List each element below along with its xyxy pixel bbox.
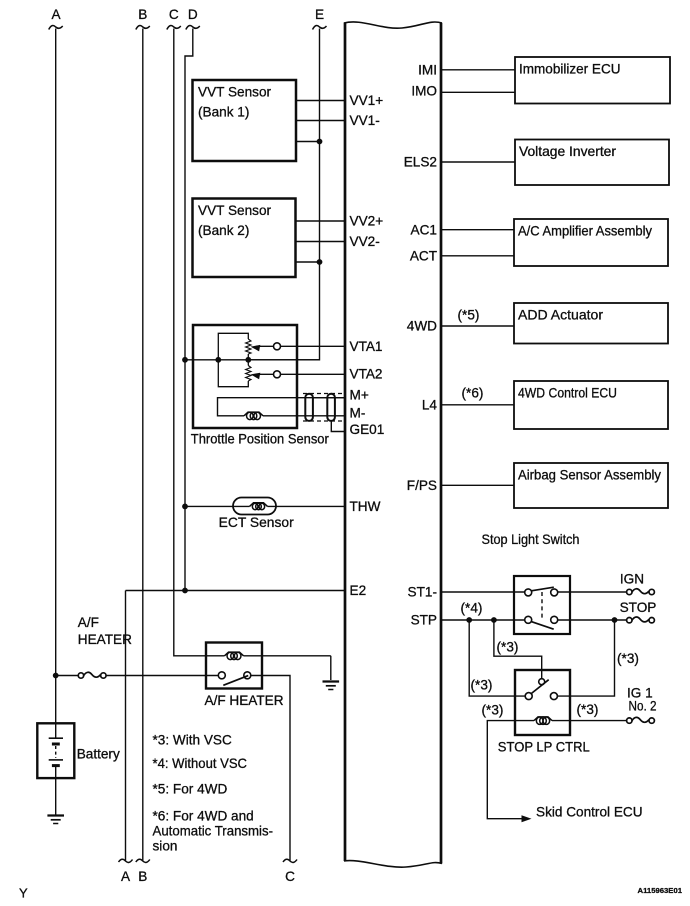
fuse STOP (627, 617, 655, 623)
caption STOP LP CTRL (498, 740, 590, 755)
caption Stop Light Switch (482, 532, 580, 547)
VTA2 wiper arrow and contact (251, 371, 346, 379)
stop light switch dashed link (541, 592, 543, 619)
wire THW (185, 505, 345, 507)
svg-text:ACT: ACT (410, 248, 437, 263)
svg-text:(*6): (*6) (462, 386, 484, 401)
svg-text:(*4): (*4) (461, 601, 483, 616)
wire C-bottom (relay output to terminal C) (251, 676, 290, 861)
label A/F HEATER (bus A) (78, 615, 132, 647)
TPS throttle motor loop (M+ / M- wiring) (218, 398, 346, 416)
svg-text:IMO: IMO (411, 84, 437, 99)
svg-text:(*3): (*3) (482, 703, 504, 718)
svg-text:(Bank 1): (Bank 1) (198, 105, 249, 120)
wire switch to IGN fuse (558, 591, 627, 593)
node D (top terminal label) (186, 7, 200, 30)
svg-text:M-: M- (350, 406, 366, 421)
fuse A/F heater (78, 672, 106, 678)
wire AC1 (441, 229, 514, 231)
svg-text:(*3): (*3) (471, 678, 493, 693)
svg-text:*4: Without VSC: *4: Without VSC (153, 756, 248, 771)
svg-text:VV1+: VV1+ (350, 93, 384, 108)
footnote *4 (153, 756, 248, 771)
wire second branch to stop lp ctrl pivot (494, 620, 542, 679)
ECT Sensor capsule (233, 498, 276, 515)
STOP LP CTRL relay box (515, 670, 570, 735)
svg-text:IMI: IMI (418, 62, 437, 77)
wire VV1+ (296, 100, 345, 102)
pin label THW (350, 499, 381, 514)
svg-text:L4: L4 (422, 397, 438, 412)
node A (bottom terminal label) (119, 859, 133, 884)
wire heater feed (56, 675, 219, 677)
node C (top terminal label) (167, 7, 181, 30)
wire VV2- (295, 241, 345, 243)
connector capsule 2 (327, 394, 335, 421)
VVT Sensor (Bank 1) (193, 80, 297, 161)
svg-text:ELS2: ELS2 (404, 155, 437, 170)
svg-text:*5: For 4WD: *5: For 4WD (153, 782, 228, 797)
svg-text:D: D (188, 7, 198, 22)
svg-text:Throttle Position Sensor: Throttle Position Sensor (191, 432, 329, 447)
svg-text:B: B (138, 869, 147, 884)
label No. 2 (629, 698, 657, 713)
caption Throttle Position Sensor (191, 432, 329, 447)
svg-text:E2: E2 (350, 583, 367, 598)
pin label AC1 (411, 222, 437, 237)
junction VVT1/E (317, 139, 323, 145)
wire E (vertical, to TPS supply node) (248, 29, 319, 360)
label (*3) pivot branch (497, 640, 519, 655)
stop light switch contacts (ST1- row) (525, 587, 558, 596)
junction STOP-fuse branch (612, 617, 618, 623)
A/F HEATER relay box (206, 643, 262, 689)
svg-text:THW: THW (350, 499, 381, 514)
pin label M+ (350, 388, 369, 403)
label A115963E01 (figure code) (638, 886, 683, 895)
svg-text:B: B (138, 7, 147, 22)
pin label F/PS (407, 478, 437, 493)
box A/C Amplifier Assembly (514, 219, 668, 266)
wire F/PS (441, 484, 514, 486)
footnote *6 (153, 809, 274, 854)
wire A (vertical battery feed) (55, 29, 57, 724)
wire STP to switch (441, 619, 525, 621)
wire coil to skid control ECU (487, 721, 524, 819)
wire switch to STOP fuse (558, 619, 627, 621)
pin label VV2- (350, 234, 380, 249)
svg-text:ECT Sensor: ECT Sensor (219, 515, 294, 530)
junction A / heater feed (53, 673, 59, 679)
junction VVT2/E (317, 259, 323, 265)
pin label VTA2 (350, 366, 383, 381)
label IGN (620, 572, 644, 587)
wire L4 (441, 404, 514, 406)
svg-text:Y: Y (19, 886, 28, 901)
box Airbag Sensor Assembly (514, 463, 668, 508)
ground (A/F heater relay) (323, 682, 340, 690)
label (*3) coil left (482, 703, 504, 718)
wire IMO (441, 91, 515, 93)
svg-text:A/F: A/F (78, 615, 99, 630)
svg-text:VVT Sensor: VVT Sensor (198, 85, 272, 100)
pin label ELS2 (404, 155, 437, 170)
svg-text:HEATER: HEATER (78, 632, 132, 647)
fuse IGN (627, 589, 655, 595)
label (*3) left branch (471, 678, 493, 693)
TPS potentiometer body (218, 333, 251, 386)
wire C (vertical, to A/F heater relay coil) (174, 29, 225, 656)
svg-text:ADD Actuator: ADD Actuator (518, 308, 603, 323)
ground (battery) (47, 816, 64, 824)
svg-text:E: E (315, 7, 324, 22)
pin label GE01 (350, 422, 385, 437)
pin label IMO (411, 84, 437, 99)
label (*6) (462, 386, 484, 401)
wire VVT1 to bus E (296, 141, 320, 143)
wire B (vertical) (142, 29, 144, 861)
node C (bottom terminal label) (283, 859, 297, 884)
Throttle Position Sensor box (193, 325, 297, 428)
svg-text:IGN: IGN (620, 572, 644, 587)
pin label VV2+ (350, 214, 384, 229)
label Battery (77, 747, 120, 762)
svg-text:C: C (169, 7, 179, 22)
footnote *5 (153, 782, 228, 797)
stop lp ctrl pivot contact (539, 679, 545, 685)
svg-text:M+: M+ (350, 388, 369, 403)
A/F heater relay coil (225, 652, 331, 660)
junction D rail (182, 357, 188, 363)
caption A/F HEATER (relay) (205, 693, 284, 708)
wire sensor-ground rail (D to pot to E) (185, 359, 320, 361)
label (*3) right branch (617, 651, 639, 666)
svg-text:F/PS: F/PS (407, 478, 437, 493)
svg-text:VV2+: VV2+ (350, 214, 384, 229)
svg-text:C: C (285, 869, 295, 884)
junction STP second (491, 617, 497, 623)
battery cells (49, 723, 63, 778)
A/F heater relay contacts (218, 672, 251, 686)
svg-text:A: A (51, 7, 61, 22)
svg-text:(Bank 2): (Bank 2) (198, 223, 249, 238)
node B (top terminal label) (136, 7, 150, 30)
label Skid Control ECU (536, 805, 643, 820)
label (*5) (458, 308, 480, 323)
caption ECT Sensor (219, 515, 294, 530)
label STOP (620, 600, 657, 615)
svg-text:VTA1: VTA1 (350, 339, 383, 354)
box ADD Actuator (514, 303, 668, 344)
svg-text:(*3): (*3) (497, 640, 519, 655)
svg-text:sion: sion (153, 839, 178, 854)
pin label ST1- (408, 585, 437, 600)
wire VV2+ (295, 220, 345, 222)
label IG 1 (627, 686, 653, 701)
svg-text:GE01: GE01 (350, 422, 385, 437)
label (*4) (461, 601, 483, 616)
svg-text:AC1: AC1 (411, 222, 437, 237)
svg-text:4WD Control ECU: 4WD Control ECU (518, 386, 617, 401)
junction D/THW (182, 504, 188, 510)
pin label ACT (410, 248, 437, 263)
ECM (engine control module) outline (344, 22, 442, 867)
wire 4WD (441, 325, 514, 327)
svg-text:STP: STP (411, 613, 437, 628)
svg-text:VV1-: VV1- (350, 113, 380, 128)
wire VVT2 to bus E (295, 261, 320, 263)
pin label VV1- (350, 113, 380, 128)
pin label IMI (418, 62, 437, 77)
wire GE01 (shield drain) (331, 421, 345, 432)
wire ELS2 (441, 161, 515, 163)
svg-text:Skid Control ECU: Skid Control ECU (536, 805, 643, 820)
wire D (vertical sensor ground, jogs left) (185, 29, 193, 591)
wire IMI (441, 69, 515, 71)
Battery box (37, 723, 74, 778)
pin label M- (350, 406, 366, 421)
stop light switch contacts (STP row) (525, 616, 558, 629)
label Y (page marker) (19, 886, 28, 901)
svg-text:Immobilizer ECU: Immobilizer ECU (519, 62, 621, 77)
svg-text:VTA2: VTA2 (350, 366, 383, 381)
wire (*4) branch to stop lp ctrl left contact (469, 620, 525, 696)
svg-text:VV2-: VV2- (350, 234, 380, 249)
box Voltage Inverter (515, 140, 669, 186)
svg-text:Automatic Transmis-: Automatic Transmis- (153, 824, 274, 839)
svg-text:A/F HEATER: A/F HEATER (205, 693, 284, 708)
TPS motor coil (244, 412, 263, 419)
arrow to skid control ECU (522, 815, 532, 822)
stop lp ctrl relay coil (515, 717, 570, 725)
svg-text:*3: With VSC: *3: With VSC (153, 733, 233, 748)
node A (top terminal label) (49, 7, 63, 30)
pin label E2 (350, 583, 367, 598)
Stop Light Switch box (514, 576, 570, 634)
VTA1 wiper arrow and contact (251, 343, 346, 352)
stop lp ctrl right contact (550, 693, 557, 700)
svg-text:Airbag Sensor Assembly: Airbag Sensor Assembly (518, 468, 661, 483)
junction pot body (215, 357, 221, 363)
svg-text:No. 2: No. 2 (629, 698, 657, 713)
fuse IG1/No2 (627, 717, 655, 723)
box Immobilizer ECU (515, 57, 670, 104)
svg-text:Stop Light Switch: Stop Light Switch (482, 532, 580, 547)
svg-text:(*3): (*3) (577, 702, 599, 717)
junction pot tap (245, 357, 251, 363)
wire ACT (441, 255, 514, 257)
wire A-bottom (E2 ground drop to terminal A) (125, 591, 127, 861)
svg-text:A: A (121, 869, 131, 884)
svg-text:(*3): (*3) (617, 651, 639, 666)
wire coil to ground (330, 656, 332, 680)
svg-text:(*5): (*5) (458, 308, 480, 323)
wire VV1- (296, 120, 345, 122)
wire STOP-fuse branch to stop lp ctrl right contact (557, 620, 614, 696)
wire ST1- to switch (441, 591, 525, 593)
node B (bottom terminal label) (136, 859, 150, 884)
svg-text:4WD: 4WD (407, 319, 437, 334)
svg-text:Voltage Inverter: Voltage Inverter (519, 144, 616, 159)
pin label VV1+ (350, 93, 384, 108)
node E (top terminal label) (313, 7, 327, 30)
stop lp ctrl left contact (525, 693, 532, 700)
junction STP (*4) (466, 617, 472, 623)
svg-text:A115963E01: A115963E01 (638, 886, 683, 895)
box 4WD Control ECU (514, 381, 668, 429)
label (*3) coil right (577, 702, 599, 717)
svg-text:VVT Sensor: VVT Sensor (198, 203, 272, 218)
wire M+ (through connectors) (312, 397, 345, 399)
wire battery to ground (55, 778, 57, 815)
footnote *3 (153, 733, 233, 748)
stop lp ctrl switch arm (531, 680, 549, 694)
VVT Sensor (Bank 2) (193, 199, 296, 278)
svg-text:A/C Amplifier Assembly: A/C Amplifier Assembly (518, 224, 652, 239)
svg-text:ST1-: ST1- (408, 585, 437, 600)
pin label L4 (422, 397, 438, 412)
pin label 4WD (407, 319, 437, 334)
svg-text:STOP LP CTRL: STOP LP CTRL (498, 740, 590, 755)
connector capsule 1 (305, 394, 313, 421)
junction D/E2 (182, 588, 188, 594)
pin label VTA1 (350, 339, 383, 354)
wire E2 (ground rail) (126, 590, 346, 592)
svg-text:STOP: STOP (620, 600, 657, 615)
wire coil to IG1/No2 fuse (570, 720, 627, 722)
pin label STP (411, 613, 437, 628)
svg-text:*6: For 4WD and: *6: For 4WD and (153, 809, 254, 824)
svg-text:Battery: Battery (77, 747, 120, 762)
connector dashed shield box (303, 394, 344, 422)
